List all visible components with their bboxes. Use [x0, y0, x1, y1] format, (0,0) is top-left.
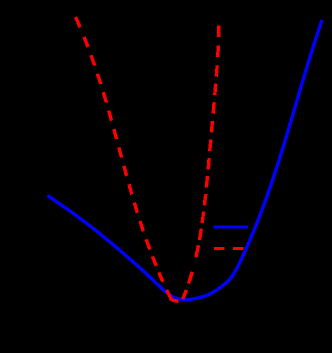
blue anharmonic potential curve: [48, 20, 323, 300]
red dashed harmonic curve, right branch: [183, 26, 219, 299]
red dashed energy level line: [214, 247, 244, 250]
blue energy level line: [214, 225, 248, 228]
red dashed harmonic curve, left branch: [76, 17, 179, 301]
